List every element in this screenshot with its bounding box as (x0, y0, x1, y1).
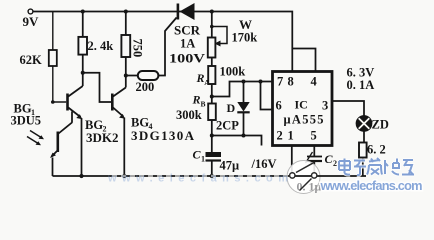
wire 62K branch (53, 12, 66, 102)
capacitor C2 (306, 152, 338, 168)
svg-text:3DU5: 3DU5 (11, 114, 42, 128)
resistor 6.2 (359, 143, 386, 158)
wire resistor to rail (362, 158, 364, 177)
op-amp U1 IC uA555 (273, 72, 333, 146)
svg-text:2: 2 (333, 159, 337, 168)
svg-text:1: 1 (201, 155, 205, 164)
svg-text:D: D (227, 101, 236, 115)
terminal 9V (23, 9, 40, 29)
wire lamp to resistor (363, 131, 365, 143)
svg-text:8: 8 (288, 75, 294, 89)
svg-text:3: 3 (322, 99, 328, 113)
svg-text:3DK2: 3DK2 (86, 130, 119, 145)
svg-text:100V: 100V (169, 52, 205, 66)
svg-text:IC: IC (295, 98, 308, 112)
svg-text:1A: 1A (180, 37, 195, 51)
svg-text:2: 2 (277, 129, 283, 143)
svg-text:750: 750 (131, 39, 145, 58)
svg-text:5: 5 (311, 129, 317, 143)
wire net pin2 (212, 136, 262, 146)
svg-text:9V: 9V (23, 14, 40, 29)
resistor 62K (20, 50, 57, 67)
resistor RB 300k (176, 93, 216, 123)
svg-text:SCR: SCR (174, 23, 201, 38)
svg-text:μA555: μA555 (284, 113, 324, 127)
svg-text:6: 6 (276, 99, 282, 113)
resistor 750 (121, 35, 144, 57)
node rail C1 (210, 174, 214, 178)
node main top (210, 10, 214, 14)
svg-text:300k: 300k (176, 108, 202, 122)
wire RB bottom (211, 120, 213, 152)
transistor BG2 3DK2 (68, 86, 119, 176)
wire SCR gate (158, 18, 176, 76)
svg-text:2CP: 2CP (216, 119, 239, 133)
wire pin5 (313, 146, 315, 173)
wire 200 left (126, 75, 138, 77)
watermark url (320, 178, 423, 193)
node diode tap (242, 80, 246, 84)
svg-text:100k: 100k (220, 65, 246, 79)
svg-text:www.elecfans.com: www.elecfans.com (320, 178, 423, 193)
node BG2 base (51, 100, 55, 104)
wire net pin7 (212, 82, 273, 97)
watermark stamp circle (287, 161, 322, 194)
node net B left (210, 134, 214, 138)
svg-text:/16V: /16V (251, 157, 277, 171)
wire ground rail (53, 175, 367, 177)
lamp ZD (347, 66, 389, 132)
node BG4 base tap (81, 71, 85, 75)
node 2.4k top (81, 10, 85, 14)
svg-text:7: 7 (277, 75, 283, 89)
node 200 left (124, 74, 128, 78)
svg-text:0. 1A: 0. 1A (347, 78, 375, 92)
capacitor C1 47u (193, 148, 277, 177)
resistor RA 100k (196, 65, 246, 88)
resistor 2.4k (78, 37, 113, 55)
node 750 top (124, 10, 128, 14)
svg-text:A: A (204, 78, 210, 87)
svg-text:R: R (192, 93, 201, 107)
switch contacts in stamp (290, 162, 317, 190)
node rail BG2 (79, 174, 83, 178)
SCR thyristor (169, 3, 205, 66)
svg-text:ZD: ZD (372, 118, 389, 132)
watermark faint url over rail (112, 175, 290, 177)
svg-text:170k: 170k (232, 31, 258, 45)
node rail BG4 (122, 174, 126, 178)
wire 750 branch (125, 12, 127, 88)
svg-text:2. 4k: 2. 4k (88, 39, 114, 53)
node RA-RB junction (210, 95, 214, 99)
svg-text:4: 4 (311, 75, 318, 89)
wire top rail (33, 12, 292, 72)
wire pin1 (291, 146, 293, 173)
svg-text:6. 2: 6. 2 (367, 143, 386, 157)
wire pin4 (292, 49, 315, 72)
svg-text:47μ: 47μ (220, 159, 240, 173)
wire main branch upper (211, 12, 213, 66)
node pin6 tap (259, 80, 263, 84)
watermark chinese characters (339, 158, 414, 175)
transistor BG1 3DU5 phototransistor (11, 102, 73, 177)
svg-text:3DG130A: 3DG130A (131, 128, 195, 143)
node W bracket (210, 25, 214, 29)
diode D 2CP (216, 82, 250, 136)
node net B diode (242, 134, 246, 138)
transistor BG4 3DG130A (112, 88, 194, 177)
wire pin6 (261, 82, 273, 110)
potentiometer W 170k (208, 17, 257, 58)
wire pin3 (332, 101, 364, 116)
svg-text:62K: 62K (20, 53, 43, 67)
svg-text:200: 200 (136, 80, 155, 94)
svg-text:1: 1 (288, 129, 294, 143)
resistor 200 (136, 71, 159, 94)
svg-text:R: R (196, 71, 205, 85)
wire 2.4k branch (82, 12, 84, 86)
wire RA-RB (211, 84, 213, 104)
wire BG4 base (83, 73, 111, 102)
